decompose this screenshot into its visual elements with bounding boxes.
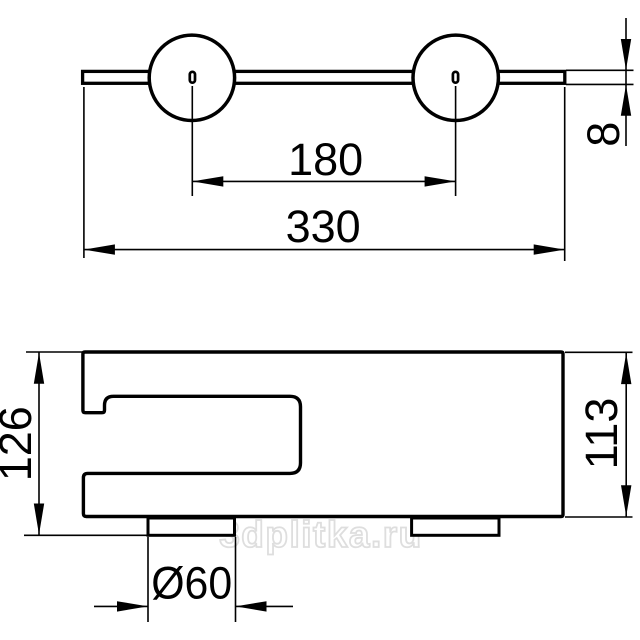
- dim text 126: [0, 406, 41, 481]
- dim text 113: [576, 398, 627, 470]
- wall bar (top view): [83, 71, 565, 83]
- extension lines for dim 330: [84, 87, 565, 261]
- svg-text:180: 180: [288, 134, 363, 185]
- svg-text:8: 8: [578, 122, 629, 147]
- svg-text:3dplitka.ru: 3dplitka.ru: [219, 514, 423, 555]
- extension lines for dim 113: [565, 352, 633, 517]
- watermark 3dplitka.ru: [219, 514, 423, 555]
- dim text 330: [286, 201, 361, 252]
- svg-text:Ø60: Ø60: [151, 557, 232, 608]
- dim text 180: [288, 134, 363, 185]
- screw slot right: [453, 72, 458, 83]
- screw slot left: [190, 72, 195, 83]
- shelf body profile (side view): [83, 352, 563, 517]
- svg-text:330: 330: [286, 201, 361, 252]
- extension lines for dim 126: [24, 352, 148, 535]
- right foot: [412, 518, 499, 535]
- dimension line 126: [34, 352, 44, 535]
- extension lines for dim 8: [566, 70, 634, 84]
- dimension line 60: [94, 601, 293, 611]
- extension lines for dim 180: [192, 86, 455, 196]
- dimension line 8: [621, 18, 631, 146]
- extension lines for dim 60: [148, 537, 236, 622]
- dimension line 113: [621, 352, 631, 517]
- mounting circle left: [149, 35, 234, 120]
- svg-text:113: 113: [576, 398, 627, 470]
- svg-text:126: 126: [0, 406, 41, 481]
- dimension line 180: [192, 176, 455, 186]
- mounting circle right: [413, 35, 498, 120]
- dim text 8: [578, 122, 629, 147]
- dim text diameter 60: [151, 557, 232, 608]
- dimension line 330: [84, 244, 565, 254]
- left foot: [148, 518, 235, 535]
